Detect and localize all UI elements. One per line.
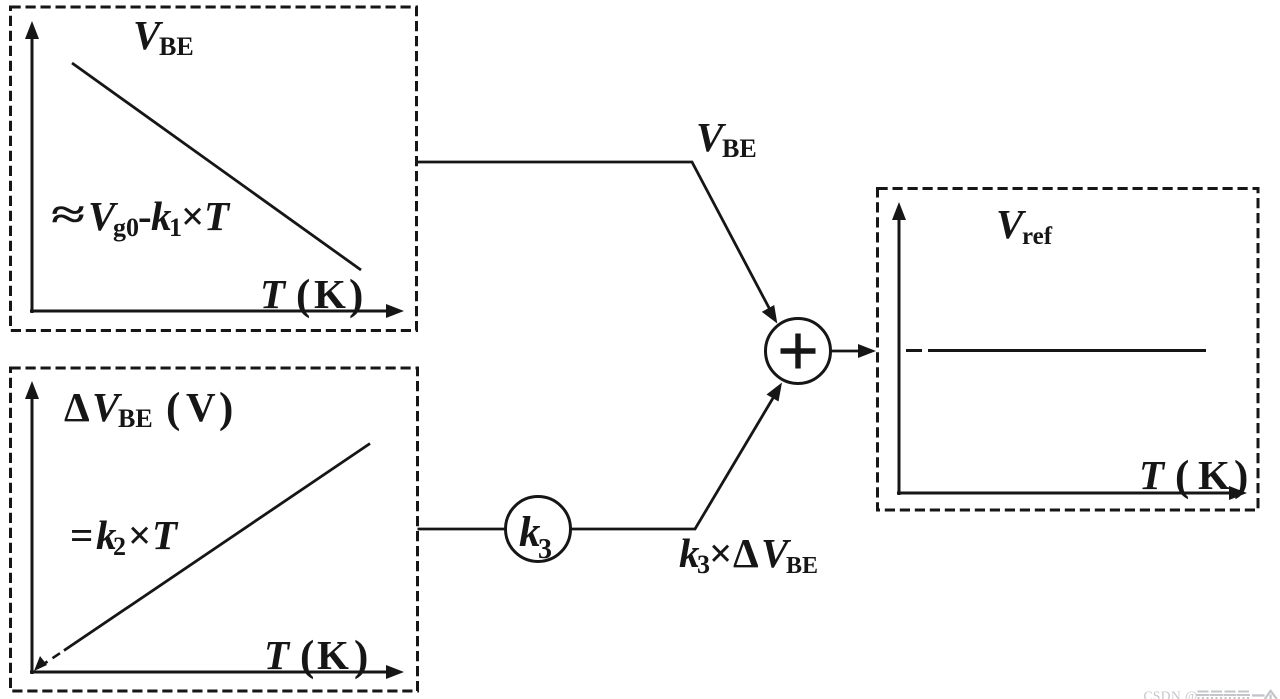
svg-text:K: K bbox=[317, 632, 349, 678]
svg-text:T: T bbox=[204, 193, 231, 239]
svg-text:T: T bbox=[1139, 452, 1166, 498]
svg-text:K: K bbox=[1198, 452, 1230, 498]
svg-text:(: ( bbox=[1175, 453, 1189, 500]
svg-text:): ) bbox=[219, 385, 233, 432]
svg-text:K: K bbox=[314, 271, 346, 317]
svg-text:T: T bbox=[260, 271, 287, 317]
svg-text:-: - bbox=[138, 193, 152, 239]
svg-text:Δ: Δ bbox=[733, 530, 759, 576]
svg-text:(: ( bbox=[300, 633, 314, 680]
svg-text:(: ( bbox=[296, 272, 310, 319]
svg-text:=: = bbox=[70, 512, 93, 558]
svg-text:×: × bbox=[709, 530, 732, 576]
svg-text:BE: BE bbox=[159, 32, 194, 61]
svg-text:(: ( bbox=[166, 385, 180, 432]
svg-text:BE: BE bbox=[722, 134, 757, 163]
svg-text:Δ: Δ bbox=[64, 384, 90, 430]
svg-text:≈: ≈ bbox=[51, 191, 85, 237]
svg-text:2: 2 bbox=[113, 532, 126, 561]
svg-text:T: T bbox=[264, 632, 291, 678]
svg-text:V: V bbox=[186, 384, 216, 430]
svg-text:g0: g0 bbox=[113, 213, 139, 242]
svg-text:): ) bbox=[1234, 453, 1248, 500]
svg-text:CSDN @: CSDN @ bbox=[1144, 689, 1198, 699]
svg-text:ref: ref bbox=[1022, 223, 1053, 250]
svg-text:): ) bbox=[349, 272, 363, 319]
svg-text:×: × bbox=[128, 512, 151, 558]
svg-text:T: T bbox=[152, 512, 179, 558]
svg-text:): ) bbox=[354, 633, 368, 680]
svg-text:BE: BE bbox=[118, 404, 153, 433]
svg-text:BE: BE bbox=[786, 553, 818, 579]
svg-text:3: 3 bbox=[538, 534, 552, 565]
svg-text:×: × bbox=[181, 193, 204, 239]
